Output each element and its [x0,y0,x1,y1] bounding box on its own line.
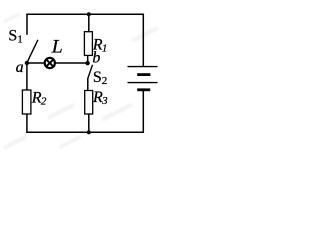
switch S1 blade [27,40,38,63]
resistor R2 [22,90,31,114]
wire middle vertical (top to R1) [88,14,90,32]
battery (two cells) [128,67,158,90]
wire S2 to R3 [87,78,89,90]
svg-text:b: b [92,50,100,67]
junction dot bottom (middle branch) [87,130,91,134]
wire R3 to bottom [88,114,90,132]
lamp L [45,58,55,68]
resistor R1 [84,32,92,56]
node b [85,61,89,65]
wire lamp to node b [56,62,88,64]
wire node a to lamp [27,62,44,64]
svg-text:L: L [51,37,63,58]
wire bottom horizontal [26,131,144,133]
wire right vertical (top, to battery) [142,14,144,67]
junction dot top (middle branch) [87,12,91,16]
wire left vertical (node a to R2) [26,63,28,90]
wire left vertical (R2 to bottom) [26,114,28,133]
svg-text:a: a [16,59,24,76]
resistor R3 [85,91,93,115]
wire right vertical (battery to bottom) [142,91,144,134]
switch S2 blade [88,65,93,79]
wire left vertical (top, S1 fixed contact) [26,14,28,35]
wire R1 to node b [87,55,89,61]
wire top horizontal [26,13,144,15]
node a [25,61,29,65]
